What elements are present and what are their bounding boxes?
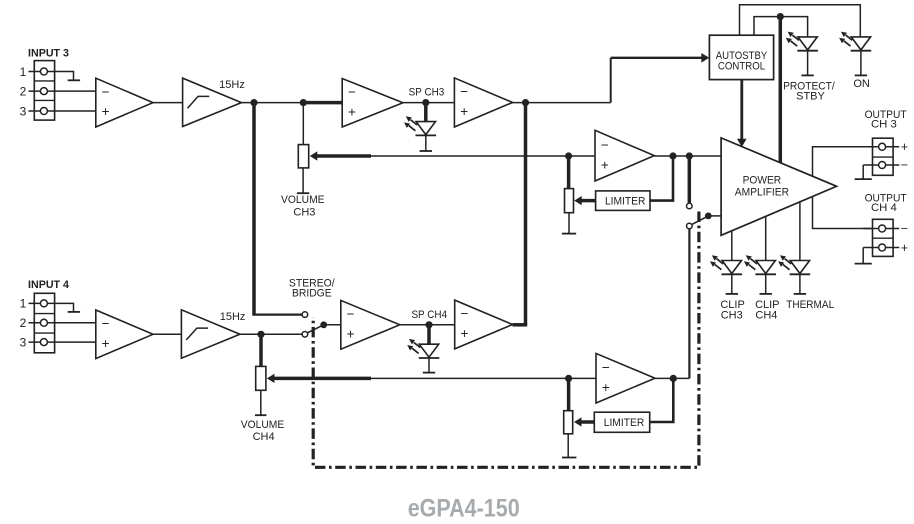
- wire down to limiter pot CH3: [567, 156, 571, 189]
- wire limiter amp CH3 to power amplifier: [654, 155, 721, 157]
- LED SP CH3: [404, 116, 436, 151]
- svg-text:STBY: STBY: [796, 91, 825, 103]
- svg-text:+: +: [348, 104, 356, 119]
- svg-text:+: +: [602, 380, 610, 395]
- svg-text:−: −: [461, 306, 469, 321]
- pin 3 (INPUT 4): [20, 336, 96, 350]
- svg-text:3: 3: [20, 104, 27, 118]
- wire CH3 tap down to STEREO/BRIDGE switch: [252, 103, 302, 315]
- potentiometer VOLUME CH3: [298, 145, 308, 168]
- contact circles INPUT 3: [40, 68, 47, 115]
- wire junction B to SP CH3 amp: [303, 101, 342, 105]
- pin 2 (INPUT 3): [20, 85, 96, 99]
- op-amp limiter stage CH4: [596, 353, 655, 403]
- ground (VOLUME CH3): [297, 168, 309, 193]
- wire sense bus CH3 to CH4: [524, 103, 528, 325]
- svg-text:INPUT 4: INPUT 4: [28, 279, 70, 291]
- svg-text:eGPA4-150: eGPA4-150: [408, 494, 520, 522]
- wire down to bridge switch contact: [688, 156, 692, 203]
- arrow limiter CH4 to pot: [574, 417, 594, 426]
- svg-text:−: −: [601, 137, 609, 152]
- svg-text:−: −: [460, 84, 468, 99]
- AUTOSTBY CONTROL block: [709, 35, 773, 79]
- switch STEREO/BRIDGE contact upper: [302, 312, 308, 318]
- input connector INPUT 3: [34, 61, 54, 121]
- junction A (CH3 signal split): [250, 99, 257, 106]
- svg-text:−: −: [602, 360, 610, 375]
- switch STEREO/BRIDGE contact lower: [302, 332, 308, 338]
- op-amp input buffer CH3: [96, 78, 153, 127]
- svg-text:AMPLIFIER: AMPLIFIER: [735, 186, 789, 198]
- op-amp input buffer CH4: [96, 310, 153, 359]
- svg-text:3: 3: [20, 336, 27, 350]
- LED THERMAL: [778, 255, 810, 294]
- label OUTPUT CH 4: [865, 192, 907, 214]
- wire VOLUME CH3 wiper to limiter amp CH3: [371, 155, 595, 157]
- wiper arrow VOLUME CH3: [310, 151, 371, 160]
- junction I (limiter pot CH4 tap): [565, 375, 572, 382]
- filter 15Hz CH3: [183, 78, 242, 126]
- wire junction B down to VOLUME CH3: [302, 103, 304, 145]
- svg-text:SP CH3: SP CH3: [409, 87, 445, 99]
- op-amp SP CH3 stage 2: [454, 78, 512, 127]
- svg-text:+: +: [601, 157, 609, 172]
- wire to AUTOSTBY CONTROL: [611, 53, 710, 103]
- potentiometer VOLUME CH4: [256, 366, 266, 390]
- wire buffer CH4 to filter: [153, 333, 181, 335]
- svg-text:+: +: [460, 104, 468, 119]
- wire limiter feedback CH3: [650, 156, 673, 201]
- svg-text:SP CH4: SP CH4: [411, 309, 447, 321]
- svg-text:−: −: [348, 84, 356, 99]
- svg-text:+: +: [461, 326, 469, 341]
- svg-text:LIMITER: LIMITER: [604, 417, 645, 429]
- LED CLIP CH4: [744, 255, 776, 294]
- wire pole to power amplifier CH4 input: [708, 215, 721, 217]
- wire VOLUME CH4 wiper to limiter amp CH4: [371, 377, 596, 379]
- wire AUTOSTBY to PROTECT/STBY LED: [754, 17, 808, 37]
- svg-text:−: −: [347, 307, 355, 322]
- ground (VOLUME CH4): [255, 391, 267, 416]
- wire 15Hz CH3 output: [241, 102, 303, 104]
- arrow limiter CH3 to pot: [574, 196, 595, 205]
- wire down to limiter pot CH4: [567, 378, 571, 410]
- junction B (VOLUME CH3 tap): [300, 99, 307, 106]
- ground (OUTPUT CH4): [855, 248, 872, 264]
- wire switch pole to SP CH4 amp: [324, 324, 341, 326]
- svg-text:1: 1: [20, 65, 27, 79]
- wire power amplifier to THERMAL LED: [799, 202, 801, 261]
- LED PROTECT/STBY: [786, 32, 818, 76]
- wire 15Hz CH4 output to switch: [240, 333, 302, 335]
- wire CH4 signal riser to bridge switch: [688, 229, 690, 378]
- op-amp SP CH4 stage 2: [455, 300, 513, 349]
- output connector OUTPUT CH3: [863, 138, 899, 175]
- svg-text:POWER: POWER: [743, 174, 782, 186]
- wire AUTOSTBY to ON LED: [740, 5, 861, 37]
- wire power amplifier output to OUTPUT CH3: [813, 147, 873, 177]
- svg-text:+: +: [901, 241, 908, 255]
- wire buffer CH3 to filter: [153, 102, 183, 104]
- wire junction H down to VOLUME CH4: [259, 334, 263, 366]
- label VOLUME CH3: [281, 194, 325, 219]
- label PROTECT/STBY: [783, 80, 835, 102]
- svg-text:15Hz: 15Hz: [220, 311, 246, 323]
- wire limiter feedback CH4: [649, 378, 673, 422]
- svg-text:BRIDGE: BRIDGE: [292, 287, 332, 299]
- svg-text:+: +: [347, 326, 355, 341]
- wire SP CH3 output to AUTOSTBY riser: [513, 102, 611, 104]
- label CLIP CH4: [755, 299, 779, 322]
- label CLIP CH3: [720, 299, 744, 322]
- contact circles INPUT 4: [40, 300, 47, 346]
- limiter block CH4: [594, 412, 649, 432]
- switch STEREO/BRIDGE lever and pole: [308, 321, 328, 332]
- svg-text:+: +: [102, 104, 110, 119]
- svg-text:LIMITER: LIMITER: [605, 195, 646, 207]
- svg-text:2: 2: [20, 316, 27, 330]
- LED CLIP CH3: [710, 255, 742, 294]
- input connector INPUT 4: [34, 293, 54, 353]
- svg-text:INPUT 3: INPUT 3: [28, 48, 69, 60]
- svg-text:CH4: CH4: [253, 431, 275, 443]
- op-amp SP CH3 stage 1: [342, 79, 403, 128]
- svg-text:+: +: [102, 336, 110, 351]
- output connector OUTPUT CH4: [863, 219, 899, 256]
- op-amp SP CH4 stage 1: [341, 300, 400, 349]
- LED ON: [839, 32, 871, 76]
- arrow AUTOSTBY to power amplifier: [737, 80, 747, 147]
- ground (OUTPUT CH3): [855, 165, 872, 179]
- junction SP CH4 LED tap: [425, 321, 432, 328]
- ground (INPUT 4 pin 1): [55, 303, 81, 312]
- junction F (bridge switch tap CH3): [686, 152, 693, 159]
- pin 3 (INPUT 3): [20, 104, 96, 118]
- svg-text:+: +: [901, 140, 908, 154]
- svg-text:−: −: [102, 84, 110, 99]
- junction D (limiter pot CH3 tap): [565, 152, 572, 159]
- junction SP CH3 LED tap: [422, 99, 429, 106]
- bridge switch contact upper: [687, 203, 693, 209]
- ground (limiter pot CH3): [562, 213, 576, 234]
- junction E (limiter feedback CH3): [669, 152, 676, 159]
- junction J (limiter feedback CH4): [670, 375, 677, 382]
- svg-text:−: −: [901, 222, 908, 236]
- label STEREO/BRIDGE: [289, 277, 336, 299]
- svg-text:15Hz: 15Hz: [219, 79, 245, 91]
- wire SP CH3 stage1 to stage2: [403, 102, 454, 104]
- svg-text:CH3: CH3: [293, 206, 315, 218]
- svg-text:VOLUME: VOLUME: [241, 419, 285, 431]
- wire power amplifier to CLIP CH3 LED: [731, 231, 733, 261]
- svg-text:THERMAL: THERMAL: [786, 299, 834, 311]
- svg-text:ON: ON: [853, 78, 870, 90]
- potentiometer limiter CH4: [564, 411, 573, 434]
- wire protect line to power amplifier: [779, 17, 783, 163]
- ground (limiter pot CH4): [562, 434, 576, 458]
- power amplifier U1: [721, 138, 837, 235]
- junction G (protect line): [777, 13, 784, 20]
- dash-dot mechanical link (ganged switch): [313, 212, 699, 468]
- svg-text:CH3: CH3: [721, 310, 743, 322]
- wire SP CH4 LED anode: [427, 325, 431, 345]
- limiter block CH3: [596, 191, 650, 211]
- junction C (CH3/CH4 sense join): [522, 99, 529, 106]
- svg-text:CH 4: CH 4: [871, 202, 897, 214]
- wire SP CH4 output to sense bus: [513, 323, 528, 327]
- pin 1 (INPUT 4): [20, 297, 55, 311]
- svg-text:−: −: [901, 158, 908, 172]
- wire SP CH3 LED anode: [424, 103, 428, 122]
- wire power amplifier output to OUTPUT CH4: [813, 197, 873, 229]
- pin 2 (INPUT 4): [20, 316, 96, 330]
- wire limiter amp CH4 output: [655, 377, 689, 379]
- svg-text:−: −: [102, 316, 110, 331]
- junction H (VOLUME CH4 tap): [257, 331, 264, 338]
- wiper arrow VOLUME CH4: [267, 374, 371, 383]
- svg-text:2: 2: [20, 85, 27, 99]
- filter 15Hz CH4: [181, 310, 240, 358]
- bridge switch contact lower: [687, 223, 693, 229]
- svg-text:VOLUME: VOLUME: [281, 194, 325, 206]
- LED SP CH4: [407, 339, 439, 373]
- wire SP CH4 stage1 to stage2: [400, 324, 455, 326]
- pin 1 (INPUT 3): [20, 65, 55, 79]
- label OUTPUT CH 3: [865, 109, 907, 131]
- svg-text:CH 3: CH 3: [871, 118, 897, 130]
- svg-text:CONTROL: CONTROL: [718, 61, 765, 73]
- ground (INPUT 3 pin 1): [54, 72, 80, 81]
- label VOLUME CH4: [241, 419, 285, 443]
- bridge switch lever and pole: [692, 213, 712, 225]
- svg-text:CH4: CH4: [755, 310, 777, 322]
- svg-text:1: 1: [20, 297, 27, 311]
- potentiometer limiter CH3: [565, 189, 574, 213]
- op-amp limiter stage CH3: [595, 130, 654, 181]
- wire power amplifier to CLIP CH4 LED: [765, 217, 767, 261]
